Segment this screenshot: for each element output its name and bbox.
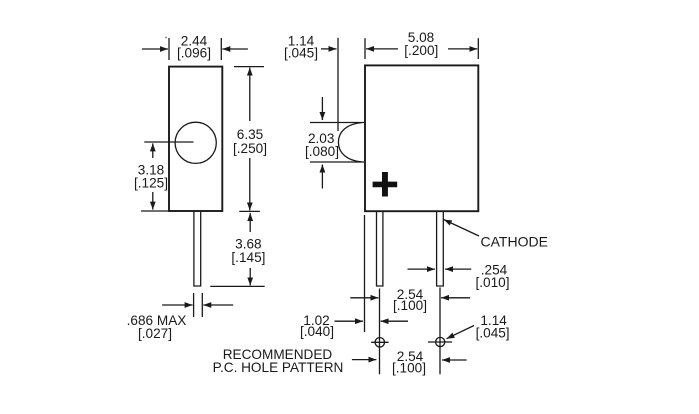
svg-text:[.145]: [.145] <box>231 250 265 265</box>
svg-text:[.010]: [.010] <box>475 275 509 290</box>
P.C. hole right <box>428 337 452 346</box>
lead centerline left <box>379 289 381 375</box>
svg-text:[.200]: [.200] <box>404 43 438 58</box>
faint speck artifact <box>165 37 167 39</box>
svg-text:[.250]: [.250] <box>233 141 267 156</box>
cathode lead (front view, right) <box>437 212 444 286</box>
svg-text:[.096]: [.096] <box>177 46 211 61</box>
dimension 2.44 [.096] top of left view <box>142 34 248 61</box>
dimension .254 [.010] lead thickness <box>408 262 510 290</box>
dimension 1.14 [.045] lens protrusion <box>284 33 338 131</box>
P.C. hole left <box>371 338 388 347</box>
dimension 3.18 [.125] left of left view <box>134 143 169 211</box>
svg-text:[.100]: [.100] <box>393 298 427 313</box>
svg-text:[.125]: [.125] <box>134 176 168 191</box>
package body outline (front view) <box>365 65 478 211</box>
dimension 6.35 [.250] right of left view <box>233 67 267 212</box>
svg-text:P.C. HOLE PATTERN: P.C. HOLE PATTERN <box>213 360 344 375</box>
dimension .686 MAX [.027] lead width <box>127 293 234 341</box>
svg-text:[.045]: [.045] <box>476 326 510 341</box>
dimension 1.14 [.045] hole diameter leader <box>447 313 510 341</box>
body edge extension line <box>364 215 366 332</box>
dimension 2.03 [.080] lens diameter <box>305 97 339 189</box>
svg-text:[.040]: [.040] <box>300 324 334 339</box>
lead (side view) <box>194 212 201 286</box>
svg-text:[.027]: [.027] <box>138 326 172 341</box>
svg-text:[.080]: [.080] <box>305 144 339 159</box>
svg-text:6.35: 6.35 <box>237 127 263 142</box>
lead centerline right <box>439 287 441 374</box>
dimension 5.08 [.200] body width <box>365 30 478 59</box>
svg-text:[.100]: [.100] <box>392 361 426 376</box>
CATHODE label and leader arrow <box>444 220 548 250</box>
svg-text:[.045]: [.045] <box>284 46 318 61</box>
package body outline (side view) <box>169 67 222 211</box>
dimension 2.54 [.100] lead spacing <box>350 287 470 313</box>
anode lead (front view, left) <box>377 212 383 286</box>
RECOMMENDED P.C. HOLE PATTERN label <box>213 347 344 375</box>
dimension 1.02 [.040] lead offset <box>300 313 408 339</box>
leader line to circle center <box>144 141 193 143</box>
svg-text:CATHODE: CATHODE <box>481 233 548 249</box>
lens dome arc (front view) <box>310 123 364 163</box>
plus polarity mark <box>373 172 398 197</box>
lens circle (side view) <box>175 122 216 163</box>
dimension 2.54 [.100] hole spacing <box>352 349 467 376</box>
dimension 3.68 [.145] below left view <box>210 213 265 286</box>
